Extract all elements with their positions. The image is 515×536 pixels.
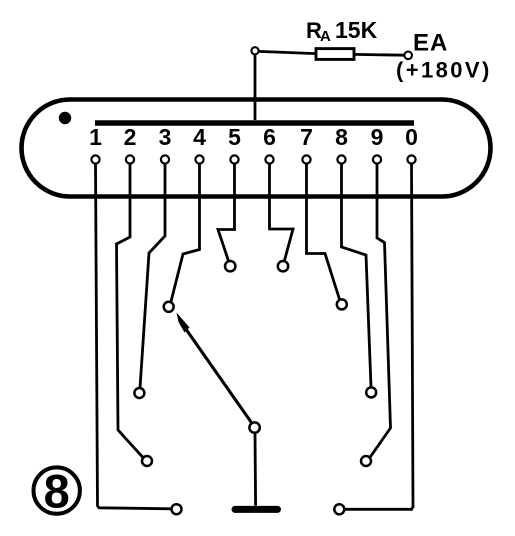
wire pin 0 to contact 0 — [345, 164, 413, 510]
contact 4 — [164, 302, 174, 312]
wire node to resistor — [259, 51, 316, 53]
contact 6 — [278, 261, 288, 271]
svg-text:0: 0 — [405, 124, 418, 150]
EA terminal node — [404, 52, 412, 60]
svg-text:4: 4 — [193, 124, 206, 150]
wire pin 5 to contact 5 — [218, 164, 235, 262]
contact 8 — [366, 387, 376, 397]
svg-text:5: 5 — [228, 124, 241, 150]
svg-text:1: 1 — [89, 124, 102, 150]
wire pin 4 to contact 4 — [171, 164, 200, 303]
wiper arm — [186, 329, 253, 424]
contact 2 — [142, 456, 152, 466]
wiper arrowhead — [177, 313, 190, 333]
anode bar — [95, 120, 414, 126]
svg-text:8: 8 — [335, 124, 348, 150]
svg-text:A: A — [320, 28, 331, 45]
contact 3 — [134, 388, 144, 398]
anode terminal node — [251, 47, 258, 54]
contact 1 — [172, 504, 182, 514]
index dot — [59, 112, 71, 124]
wiper pivot — [249, 422, 259, 432]
wire resistor to EA — [354, 53, 404, 57]
wire pin 7 to contact 7 — [307, 164, 340, 301]
contact 7 — [337, 299, 347, 309]
figure number circle — [34, 467, 80, 513]
svg-text:15K: 15K — [335, 17, 378, 43]
anode wire — [254, 55, 257, 121]
svg-text:6: 6 — [263, 124, 276, 150]
wire pin 1 to contact 1 — [96, 164, 172, 509]
contact 9 — [361, 456, 371, 466]
svg-text:7: 7 — [300, 124, 313, 150]
pin 3 — [161, 155, 169, 163]
wire pin 2 to contact 2 — [117, 164, 144, 458]
pin 2 — [126, 155, 134, 163]
pin 8 — [337, 155, 345, 163]
wire pin 9 to contact 9 — [370, 164, 391, 458]
svg-text:(+180V): (+180V) — [396, 58, 492, 83]
wire pin 3 to contact 3 — [140, 164, 165, 388]
pin 6 — [265, 155, 273, 163]
pin 4 — [195, 155, 203, 163]
resistor RA — [316, 49, 354, 60]
pin 0 — [407, 155, 415, 163]
contact 0 — [334, 504, 344, 514]
nixie tube envelope V1 — [22, 100, 491, 197]
common terminal bar — [235, 506, 278, 513]
svg-text:2: 2 — [124, 124, 137, 150]
svg-text:3: 3 — [159, 124, 172, 150]
contact 5 — [225, 261, 235, 271]
pin 9 — [373, 155, 381, 163]
svg-text:9: 9 — [371, 124, 384, 150]
svg-text:8: 8 — [44, 465, 70, 518]
pin 5 — [230, 155, 238, 163]
svg-text:EA: EA — [413, 30, 448, 57]
pin 1 — [91, 155, 99, 163]
wire pin 6 to contact 6 — [270, 164, 294, 262]
wire pin 8 to contact 8 — [342, 164, 372, 388]
pin 7 — [302, 155, 310, 163]
digit labels 1..0 — [89, 124, 418, 150]
wiper to common wire — [254, 433, 257, 506]
